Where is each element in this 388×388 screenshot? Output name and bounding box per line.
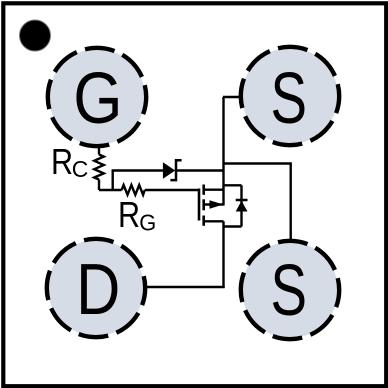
resistor RG zigzag: [122, 185, 145, 195]
svg-text:S: S: [270, 58, 307, 139]
wire node to RG: [99, 189, 122, 191]
pad D fill (bottom left): [48, 240, 144, 336]
wire bus to S2 branch: [223, 164, 291, 242]
pad G fill: [49, 49, 145, 145]
svg-text:R: R: [118, 196, 140, 236]
wire body-diode top: [223, 184, 242, 186]
wire RG to gate: [145, 189, 199, 191]
pad G dashed ring: [48, 48, 146, 146]
mosfet channel segment middle: [202, 199, 205, 210]
svg-text:G: G: [73, 59, 122, 139]
resistor RC zigzag: [94, 155, 104, 180]
mosfet body stub: [204, 203, 224, 205]
wire RC to node: [98, 180, 100, 191]
mosfet channel segment top: [202, 185, 205, 195]
body diode cathode bar: [236, 199, 248, 202]
svg-text:D: D: [76, 250, 120, 330]
wire zener to bus: [175, 169, 224, 171]
pad S1 dashed ring: [241, 47, 339, 145]
mosfet drain stub: [204, 188, 224, 190]
mosfet channel segment bottom: [202, 216, 205, 226]
svg-text:C: C: [72, 156, 89, 182]
svg-text:R: R: [51, 143, 73, 183]
wire bus to S1: [223, 96, 243, 98]
pad D dashed ring: [47, 239, 145, 337]
zener diode triangle: [163, 162, 175, 179]
bus vertical lower segment: [222, 221, 224, 288]
pad S2 dashed ring: [241, 241, 339, 339]
wire D pad to bus: [144, 286, 225, 288]
svg-text:G: G: [139, 210, 156, 236]
wire branch up to zener: [113, 171, 163, 191]
mosfet gate plate: [198, 189, 201, 221]
bus vertical upper segment: [222, 97, 224, 206]
wire G pad to RC: [98, 145, 100, 155]
mosfet body arrow: [210, 200, 224, 208]
zener diode cathode bar: [170, 160, 181, 180]
body diode triangle: [236, 201, 248, 212]
mosfet source stub: [204, 220, 224, 222]
svg-text:S: S: [270, 250, 307, 331]
body diode vertical: [240, 185, 242, 226]
pad S2 fill (bottom right): [242, 242, 338, 338]
wire body-diode bottom: [223, 225, 242, 227]
pin 1 marker: [20, 20, 51, 51]
pad S1 fill (top right): [242, 48, 338, 144]
